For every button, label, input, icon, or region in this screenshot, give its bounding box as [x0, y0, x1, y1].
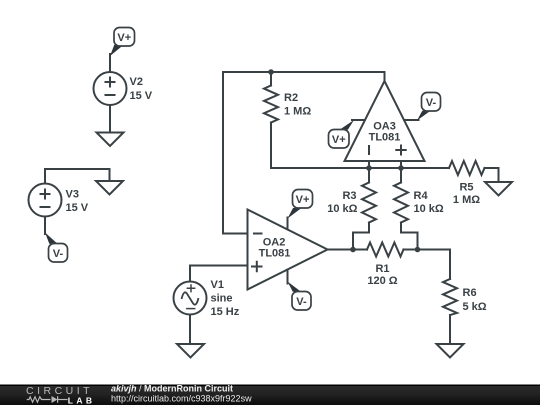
wire R1 right to R6 top	[404, 250, 451, 280]
wire V3 top to ground (right)	[45, 169, 110, 184]
resistor R2	[264, 86, 278, 123]
OA2 V- supply stub	[287, 270, 289, 284]
svg-text:V-: V-	[296, 296, 307, 308]
svg-text:R3: R3	[342, 190, 356, 202]
junction node C (OA3 plus)	[398, 165, 404, 171]
resistor R3	[362, 183, 376, 223]
svg-text:V1: V1	[211, 279, 224, 291]
flag to V+ net label (OA2)	[288, 208, 302, 219]
net label V+ (V2)	[114, 28, 135, 47]
OA2 minus marker	[253, 233, 263, 235]
OA3 input lead minus	[368, 161, 370, 168]
svg-text:TL081: TL081	[369, 132, 401, 144]
wire node B to node C to R5	[369, 167, 449, 169]
resistor R6	[443, 279, 457, 315]
wire R3 bottom jog to node D	[353, 223, 369, 250]
svg-text:V+: V+	[296, 194, 310, 206]
svg-text:V-: V-	[53, 248, 64, 260]
flag to V- net label (OA2)	[288, 282, 302, 292]
OA3 plus marker	[395, 145, 406, 156]
ground below R6	[437, 344, 464, 358]
junction node D (R3/R1)	[350, 247, 356, 253]
ground below V1	[177, 344, 204, 358]
svg-text:R1: R1	[375, 263, 389, 275]
wire V1 bottom to ground	[189, 314, 191, 344]
wire R4 bottom jog to node E	[401, 223, 418, 250]
svg-text:http://circuitlab.com/c938x9fr: http://circuitlab.com/c938x9fr922sw	[111, 394, 252, 404]
junction node B (OA3 minus)	[366, 165, 372, 171]
wire R5 right to ground	[485, 168, 499, 182]
op-amp OA3	[345, 81, 425, 161]
ground right of R5	[485, 182, 512, 196]
svg-text:LAB: LAB	[68, 396, 96, 406]
svg-text:15 V: 15 V	[130, 90, 153, 102]
V3 minus sign	[40, 206, 51, 208]
ground right of V3	[96, 181, 123, 195]
svg-text:1 MΩ: 1 MΩ	[284, 106, 311, 118]
svg-text:V2: V2	[130, 76, 143, 88]
wire V+ flag to V2 top	[109, 54, 111, 72]
wire OA2 output to R1	[328, 249, 368, 251]
flag to V- net label (OA3)	[417, 111, 431, 121]
resistor R1	[367, 243, 404, 257]
net label V+ (OA3)	[329, 130, 350, 149]
flag to V+ net label (V2)	[110, 45, 123, 56]
svg-text:V+: V+	[332, 134, 346, 146]
svg-text:V-: V-	[426, 97, 437, 109]
flag to V- net label (V3)	[45, 233, 58, 244]
svg-text:akivjh / ModernRonin Circuit: akivjh / ModernRonin Circuit	[111, 384, 233, 394]
voltage source V3	[29, 184, 62, 217]
svg-text:TL081: TL081	[259, 248, 291, 260]
flag to V+ net label (OA3)	[340, 120, 355, 130]
ground below V2	[97, 133, 124, 147]
svg-text:15 V: 15 V	[66, 202, 89, 214]
resistor R4	[394, 183, 408, 223]
junction node A (R2 top)	[268, 69, 274, 75]
voltage source V2	[94, 72, 127, 105]
net label V+ (OA2)	[293, 190, 313, 209]
resistor R5	[449, 161, 485, 175]
OA3 V- supply stub	[404, 119, 418, 121]
wire R4 top lead	[400, 168, 402, 183]
svg-text:R2: R2	[284, 92, 298, 104]
wire V2 bottom to ground	[109, 104, 111, 133]
wire R3 top lead	[368, 168, 370, 183]
svg-text:V3: V3	[66, 189, 79, 201]
wire V1 top to OA2 plus input	[190, 266, 248, 283]
footer CircuitLab logo	[26, 385, 95, 406]
svg-text:R4: R4	[414, 190, 429, 202]
wire V3 bottom to V- flag	[44, 216, 46, 234]
svg-text:10 kΩ: 10 kΩ	[327, 203, 357, 215]
OA3 minus marker	[368, 145, 370, 155]
svg-text:V+: V+	[117, 32, 131, 44]
V1 sine glyph	[182, 284, 199, 308]
OA2 plus marker	[251, 261, 263, 273]
V2 plus sign	[40, 77, 407, 273]
OA2 V+ supply stub	[287, 218, 289, 230]
wire R6 bottom to ground	[449, 315, 451, 344]
wire left vertical + top horizontal to OA3 output	[223, 72, 385, 234]
net label V- (OA3)	[422, 93, 441, 112]
svg-text:R5: R5	[459, 182, 473, 194]
net label V- (OA2)	[292, 292, 311, 311]
svg-text:sine: sine	[211, 293, 233, 305]
svg-text:R6: R6	[463, 287, 477, 299]
svg-text:120 Ω: 120 Ω	[367, 275, 397, 287]
junction node E (R4/R1)	[415, 247, 421, 253]
svg-text:5 kΩ: 5 kΩ	[463, 301, 487, 313]
wire R2 bottom to node B	[271, 123, 369, 169]
op-amp OA2	[248, 210, 328, 290]
net label V- (V3)	[49, 244, 68, 263]
voltage source V1 (sine)	[174, 282, 207, 315]
OA3 V+ supply stub	[352, 119, 365, 121]
svg-text:10 kΩ: 10 kΩ	[414, 203, 444, 215]
svg-text:1 MΩ: 1 MΩ	[453, 194, 480, 206]
wire to OA2 minus input	[223, 233, 248, 235]
OA3 input lead plus	[400, 161, 402, 168]
svg-text:15 Hz: 15 Hz	[211, 306, 240, 318]
wire R2 top lead from node A	[270, 72, 272, 86]
V2 minus sign	[105, 94, 116, 96]
V3 plus sign	[40, 189, 51, 200]
footer bar	[0, 385, 540, 406]
